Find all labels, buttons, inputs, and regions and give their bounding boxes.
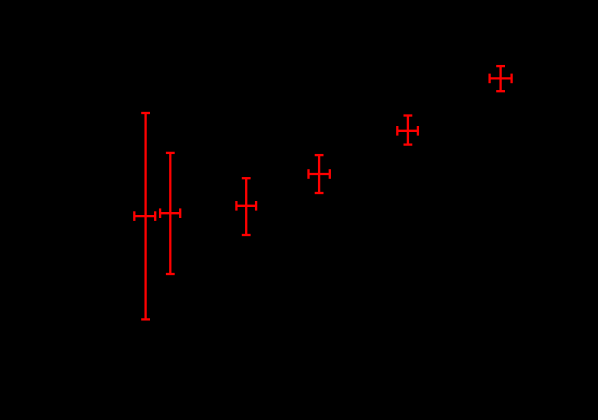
data point 5 error bars: [397, 116, 418, 145]
data point 1 error bars: [134, 113, 155, 319]
data point 3 error bars: [236, 178, 256, 235]
data point 6 error bars: [490, 66, 512, 91]
data point 4 error bars: [309, 155, 330, 193]
data point 2 error bars: [160, 153, 180, 274]
